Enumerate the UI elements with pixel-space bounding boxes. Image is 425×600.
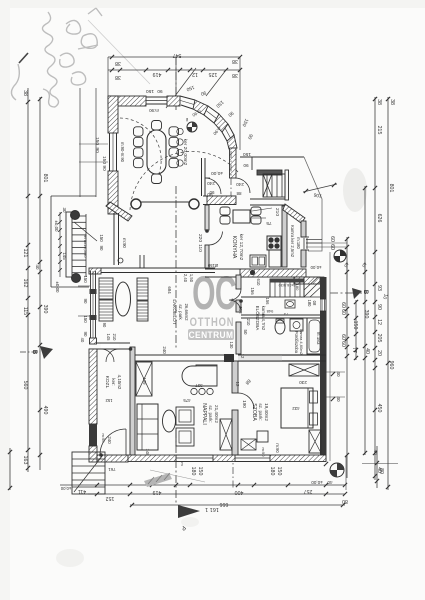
svg-text:38: 38 bbox=[115, 74, 121, 80]
stair hall eaves line bbox=[240, 156, 304, 158]
svg-text:38: 38 bbox=[115, 60, 121, 66]
svg-text:88: 88 bbox=[236, 191, 241, 196]
svg-text:ker 12,70m2: ker 12,70m2 bbox=[238, 234, 244, 261]
svg-text:60: 60 bbox=[340, 309, 346, 315]
svg-text:180: 180 bbox=[295, 284, 300, 291]
svg-text:180: 180 bbox=[190, 467, 196, 476]
svg-text:115: 115 bbox=[22, 307, 28, 315]
left dim ticks small bbox=[58, 212, 62, 216]
pantry chamfer wall bbox=[283, 204, 305, 223]
left inner dimension line bbox=[39, 97, 41, 470]
section line horizontal right bbox=[330, 292, 362, 294]
svg-text:08: 08 bbox=[312, 301, 317, 306]
bedroom bottom window bbox=[235, 454, 270, 456]
svg-text:±0,00: ±0,00 bbox=[310, 265, 322, 270]
right dim 215/626/205/450 line bbox=[374, 97, 376, 480]
svg-text:684: 684 bbox=[167, 286, 172, 294]
lakoelot chair striped 1 bbox=[137, 278, 148, 300]
svg-text:26,66m2: 26,66m2 bbox=[184, 303, 189, 321]
svg-text:180: 180 bbox=[269, 467, 275, 476]
svg-text:156: 156 bbox=[265, 298, 270, 306]
svg-text:801: 801 bbox=[388, 184, 394, 193]
benchmark circle bottom-right bbox=[330, 463, 344, 477]
leader diagonal to arc windows bbox=[166, 68, 196, 108]
svg-text:75: 75 bbox=[266, 220, 272, 226]
pantry sill lines bbox=[306, 239, 322, 241]
bottom wall left piece bbox=[97, 455, 128, 462]
svg-text:150: 150 bbox=[197, 467, 203, 476]
corridor door arcs bbox=[230, 289, 241, 300]
living left wall bottom junction bbox=[90, 338, 97, 344]
svg-text:sz. park: sz. park bbox=[178, 304, 183, 320]
dining stadium table bbox=[147, 130, 166, 174]
svg-text:38: 38 bbox=[232, 58, 238, 64]
svg-text:90: 90 bbox=[102, 323, 107, 328]
svg-text:163: 163 bbox=[22, 456, 28, 465]
stove bbox=[267, 236, 281, 250]
svg-text:90: 90 bbox=[157, 88, 163, 94]
counter bar bbox=[182, 365, 217, 386]
svg-text:475: 475 bbox=[183, 398, 191, 403]
living bottom pier2 bbox=[213, 455, 235, 462]
kitchen left wall upper bbox=[205, 205, 209, 230]
bathtub bbox=[307, 318, 322, 354]
svg-text:948: 948 bbox=[266, 309, 273, 314]
kitchen door arc bbox=[209, 232, 223, 246]
svg-text:Fürdőszoba: Fürdőszoba bbox=[294, 331, 299, 354]
svg-text:230: 230 bbox=[299, 380, 307, 385]
svg-text:40: 40 bbox=[373, 449, 378, 455]
ticks 40 near benchmark bbox=[345, 270, 349, 274]
svg-text:960: 960 bbox=[388, 361, 394, 370]
svg-text:CENTRUM: CENTRUM bbox=[189, 330, 234, 341]
svg-text:40: 40 bbox=[364, 348, 370, 354]
svg-text:m:180: m:180 bbox=[296, 237, 301, 249]
sofa 3-seat bbox=[137, 404, 158, 450]
door pivot dots bbox=[205, 229, 209, 233]
svg-text:110: 110 bbox=[197, 244, 203, 252]
svg-text:337: 337 bbox=[195, 383, 203, 388]
kozl wardrobe bbox=[136, 362, 152, 396]
svg-text:125: 125 bbox=[209, 71, 218, 77]
svg-text:240: 240 bbox=[236, 182, 244, 187]
svg-text:666: 666 bbox=[220, 501, 229, 507]
svg-text:±0,00: ±0,00 bbox=[311, 480, 323, 485]
dining wall pier bbox=[167, 96, 180, 106]
svg-text:30: 30 bbox=[62, 208, 67, 213]
svg-text:ELŐSZOBA: ELŐSZOBA bbox=[255, 306, 261, 332]
svg-text:257: 257 bbox=[304, 488, 313, 494]
svg-text:19,40m2: 19,40m2 bbox=[264, 403, 269, 421]
svg-text:240: 240 bbox=[162, 346, 167, 354]
svg-text:419: 419 bbox=[153, 71, 162, 77]
bottom dim line 3 bbox=[130, 504, 345, 506]
svg-text:156: 156 bbox=[250, 287, 255, 295]
lakoelot sofa striped 2 bbox=[99, 300, 113, 321]
living left window 1 bbox=[90, 271, 92, 289]
pantry right wall bbox=[301, 221, 306, 237]
left bottom short dim line bbox=[9, 448, 11, 490]
svg-text:60: 60 bbox=[340, 341, 346, 347]
dining top window 150 bbox=[146, 96, 167, 98]
svg-text:210: 210 bbox=[274, 208, 280, 216]
watermark OTTHON bbox=[190, 316, 235, 329]
svg-text:80: 80 bbox=[342, 498, 348, 504]
terrace wedge bottom bbox=[144, 473, 172, 487]
svg-text:12: 12 bbox=[240, 354, 245, 359]
crease line bbox=[88, 20, 150, 84]
svg-text:150: 150 bbox=[99, 234, 104, 242]
svg-text:400: 400 bbox=[235, 489, 244, 495]
nappali door arc bbox=[238, 393, 254, 409]
section line bbox=[175, 57, 177, 112]
svg-text:4,10m2: 4,10m2 bbox=[117, 375, 122, 390]
winder steps bbox=[304, 277, 324, 297]
wc room walls bbox=[241, 296, 270, 298]
second section dash line bbox=[230, 151, 232, 196]
nappali divider wall bbox=[232, 361, 238, 393]
svg-text:150: 150 bbox=[243, 151, 251, 157]
svg-text:38: 38 bbox=[376, 99, 382, 105]
living left window 3 bbox=[90, 320, 92, 338]
living bottom wall pier1 bbox=[128, 455, 176, 462]
bottom dim line 1 bbox=[60, 484, 345, 486]
benchmark circle dining bbox=[187, 122, 197, 132]
bedroom bottom pier3 bbox=[270, 455, 326, 462]
right dim line 60s inner bbox=[346, 237, 348, 478]
hall vertical wall bbox=[201, 158, 203, 196]
svg-text:50: 50 bbox=[243, 330, 248, 335]
right dim 150/77 bbox=[355, 300, 357, 360]
right bottom small dims bbox=[376, 446, 378, 488]
stair diagonal bbox=[74, 222, 97, 241]
svg-text:012: 012 bbox=[238, 306, 243, 314]
svg-text:Kamra ker 2,5m2: Kamra ker 2,5m2 bbox=[290, 225, 295, 258]
svg-text:sz. park:: sz. park: bbox=[258, 403, 263, 420]
hall door arc 2 bbox=[235, 178, 250, 193]
svg-text:90: 90 bbox=[94, 147, 100, 153]
kitchen left wall lower bbox=[205, 245, 209, 268]
bar stools bbox=[191, 388, 197, 394]
svg-text:±0,00: ±0,00 bbox=[55, 282, 60, 294]
svg-text:12: 12 bbox=[376, 319, 382, 325]
section arrow bottom bbox=[178, 505, 200, 518]
kozl entry door arc bbox=[100, 429, 126, 455]
hall door arc 1 bbox=[205, 178, 221, 194]
svg-text:12: 12 bbox=[235, 382, 240, 387]
svg-text:610: 610 bbox=[256, 279, 261, 287]
svg-text:761: 761 bbox=[108, 467, 116, 472]
svg-text:150: 150 bbox=[352, 321, 358, 330]
svg-text:215: 215 bbox=[376, 126, 382, 135]
svg-text:240: 240 bbox=[107, 436, 112, 444]
bedroom wardrobe top bbox=[289, 364, 319, 376]
svg-text:38: 38 bbox=[389, 99, 395, 105]
top dimension line 419/12/125 bbox=[108, 69, 240, 71]
svg-text:77: 77 bbox=[351, 347, 357, 353]
svg-text:60: 60 bbox=[329, 236, 335, 242]
svg-text:432: 432 bbox=[292, 406, 300, 411]
kitchen counter right bbox=[269, 250, 281, 267]
living left pier 1 bbox=[90, 289, 97, 294]
kitchen chairs bbox=[220, 207, 230, 215]
svg-text:60: 60 bbox=[340, 334, 346, 340]
svg-text:150: 150 bbox=[276, 467, 282, 476]
nightstand bbox=[257, 431, 268, 442]
svg-text:560: 560 bbox=[22, 381, 28, 390]
svg-text:m:90: m:90 bbox=[149, 108, 159, 113]
pantry divider wall bbox=[282, 206, 287, 267]
svg-text:90: 90 bbox=[83, 332, 88, 337]
living left window 2 bbox=[90, 294, 92, 315]
upper stair flight bbox=[270, 279, 304, 297]
exterior stairs treads bbox=[72, 215, 86, 217]
washing machine bbox=[290, 319, 303, 331]
svg-text:m:90: m:90 bbox=[261, 448, 266, 458]
terrace railing m90 bbox=[113, 213, 115, 265]
svg-text:fel 8x16,5/30: fel 8x16,5/30 bbox=[83, 235, 88, 259]
svg-text:180: 180 bbox=[307, 300, 312, 308]
dining chairs right column bbox=[169, 127, 179, 136]
svg-text:139: 139 bbox=[142, 378, 147, 386]
window cabinet under bedroom window bbox=[241, 439, 256, 450]
stair right wall bbox=[285, 170, 289, 200]
dining top wall hatched bbox=[108, 96, 146, 106]
staircase upper bbox=[263, 174, 285, 197]
bedroom wardrobe bottom bbox=[309, 430, 321, 453]
coffee table oval bbox=[163, 410, 176, 432]
scan streaks bbox=[0, 0, 425, 8]
curtain dashed arcs bbox=[120, 118, 161, 176]
svg-text:KOZL: KOZL bbox=[104, 376, 110, 389]
bath block top wall right part bbox=[294, 277, 320, 284]
right eaves line lower bbox=[329, 252, 331, 461]
svg-text:90: 90 bbox=[207, 191, 213, 197]
porch column left bbox=[131, 199, 141, 209]
svg-text:sz. park:: sz. park: bbox=[208, 405, 213, 422]
extension lines top bbox=[107, 57, 109, 96]
lakoelot oval table bbox=[116, 282, 131, 316]
svg-text:ker:: ker: bbox=[111, 378, 116, 385]
svg-text:490: 490 bbox=[42, 406, 48, 415]
svg-text:90: 90 bbox=[376, 304, 382, 310]
svg-text:150: 150 bbox=[146, 88, 154, 94]
svg-text:B: B bbox=[362, 290, 368, 295]
svg-text:40: 40 bbox=[80, 338, 85, 343]
living bottom window bbox=[176, 454, 213, 456]
bedroom 40 ticks bbox=[331, 372, 335, 376]
bottom dim line 2 bbox=[88, 493, 345, 495]
svg-text:162: 162 bbox=[22, 279, 28, 288]
section marker B left bbox=[40, 346, 53, 359]
right outer dim 801/960 bbox=[387, 97, 389, 490]
svg-text:801: 801 bbox=[42, 174, 48, 183]
entrance steps bottom-left bbox=[72, 452, 105, 494]
kozl left wall low bbox=[89, 446, 97, 462]
terrace boundary bbox=[51, 195, 96, 197]
lakoelot sofa striped 1 bbox=[99, 278, 113, 299]
top dimension line 547 bbox=[108, 56, 240, 58]
svg-text:m:90-m:90: m:90-m:90 bbox=[120, 142, 125, 163]
svg-text:40: 40 bbox=[35, 265, 40, 270]
svg-text:38: 38 bbox=[232, 72, 238, 78]
svg-text:130: 130 bbox=[229, 342, 234, 350]
bedroom top wall bbox=[238, 354, 326, 356]
svg-text:93: 93 bbox=[376, 285, 382, 291]
living left pier 2 bbox=[90, 315, 97, 320]
kitchen bottom wall bbox=[205, 268, 306, 270]
porch column right bbox=[189, 199, 199, 209]
dining chamfer wall bottom-left bbox=[106, 202, 132, 221]
section marker right bbox=[352, 288, 362, 299]
svg-text:40: 40 bbox=[327, 480, 333, 485]
svg-text:145: 145 bbox=[106, 334, 111, 342]
kozl divider wall bbox=[130, 347, 135, 455]
tv bench bbox=[220, 419, 232, 450]
wall below arc end bbox=[230, 148, 237, 178]
building right wall bbox=[320, 277, 327, 462]
svg-text:220: 220 bbox=[197, 234, 203, 242]
dining left wall hatched upper bbox=[108, 96, 118, 133]
toilet bbox=[275, 320, 285, 334]
right dim 390/40 bbox=[364, 186, 366, 455]
svg-text:38: 38 bbox=[22, 90, 28, 96]
svg-text:m:90: m:90 bbox=[101, 434, 106, 444]
svg-text:150: 150 bbox=[101, 156, 107, 164]
svg-text:80: 80 bbox=[378, 468, 384, 474]
svg-text:90: 90 bbox=[83, 299, 88, 304]
lakoelot chair striped 2 bbox=[137, 301, 148, 321]
svg-text:20: 20 bbox=[376, 350, 382, 356]
living top wall bbox=[97, 267, 215, 269]
left outer dimension line bbox=[27, 88, 29, 472]
svg-text:390: 390 bbox=[42, 305, 48, 314]
dining chair top bbox=[152, 121, 162, 131]
svg-text:90: 90 bbox=[99, 246, 104, 251]
svg-text:150: 150 bbox=[83, 315, 88, 323]
svg-text:205: 205 bbox=[376, 334, 382, 343]
watermark CENTRUM box bbox=[188, 329, 234, 340]
svg-text:m:: m: bbox=[185, 118, 190, 122]
svg-text:6x16,5/30: 6x16,5/30 bbox=[279, 283, 296, 287]
svg-text:152: 152 bbox=[106, 495, 115, 501]
svg-text:±0,00: ±0,00 bbox=[60, 486, 71, 491]
svg-text:450: 450 bbox=[376, 404, 382, 413]
svg-text:419: 419 bbox=[153, 489, 162, 495]
benchmark circle right of pantry bbox=[334, 250, 346, 262]
svg-text:190: 190 bbox=[242, 400, 247, 408]
svg-text:Ø150: Ø150 bbox=[207, 263, 218, 268]
watermark OC logo bbox=[192, 267, 236, 319]
exterior stairs stringer bbox=[66, 212, 72, 277]
svg-text:75: 75 bbox=[283, 312, 288, 317]
svg-text:240: 240 bbox=[207, 181, 215, 186]
svg-text:411: 411 bbox=[78, 488, 86, 494]
svg-text:kamra 4,60m2: kamra 4,60m2 bbox=[299, 329, 304, 355]
svg-text:NAPPALI: NAPPALI bbox=[201, 403, 207, 425]
bed bbox=[281, 388, 313, 428]
svg-text:145: 145 bbox=[62, 252, 67, 260]
svg-text:121: 121 bbox=[22, 249, 28, 258]
armchair 2 bbox=[176, 428, 194, 446]
porch edge line bbox=[141, 201, 189, 203]
pencil scribble notes bbox=[11, 8, 102, 107]
svg-text:21,40m2: 21,40m2 bbox=[214, 405, 219, 423]
wall under stairs bbox=[250, 198, 285, 200]
kitchen sink bbox=[250, 255, 266, 267]
svg-text:90: 90 bbox=[243, 163, 249, 168]
svg-text:±0,00: ±0,00 bbox=[54, 221, 59, 233]
svg-text:m:90: m:90 bbox=[122, 238, 127, 248]
svg-text:OC: OC bbox=[192, 267, 236, 319]
staircase landing bar bbox=[257, 170, 282, 175]
svg-text:161 1: 161 1 bbox=[205, 506, 219, 512]
svg-text:1,50: 1,50 bbox=[189, 274, 194, 283]
svg-text:150: 150 bbox=[83, 275, 88, 283]
dining left wall hatched lower bbox=[108, 171, 118, 214]
svg-text:m:90: m:90 bbox=[275, 443, 280, 453]
svg-text:60: 60 bbox=[340, 302, 346, 308]
terrace glazing stub bbox=[139, 255, 141, 268]
pantry window m180 bbox=[301, 236, 309, 238]
svg-text:OTTHON: OTTHON bbox=[190, 316, 235, 329]
dining left wall window bbox=[109, 133, 111, 171]
dining chairs left column bbox=[134, 127, 144, 136]
svg-text:210: 210 bbox=[112, 334, 117, 342]
svg-text:148: 148 bbox=[145, 449, 150, 457]
svg-text:LAKÓELŐT: LAKÓELŐT bbox=[171, 299, 178, 324]
kozl left wall dark pier bbox=[89, 424, 97, 446]
hall wall A hatched bbox=[203, 195, 236, 197]
svg-text:152: 152 bbox=[105, 398, 113, 403]
nappali top wall bbox=[134, 354, 232, 356]
svg-text:±0,00: ±0,00 bbox=[211, 170, 223, 176]
wc sink bbox=[285, 300, 295, 308]
svg-text:kamra 4,7m2: kamra 4,7m2 bbox=[261, 306, 266, 331]
dim 106 chamfer bbox=[303, 184, 337, 192]
curved glazed wall segments bbox=[180, 96, 195, 100]
eaves outline right bbox=[304, 157, 322, 251]
right wall window gap wc bbox=[321, 299, 326, 311]
kozl top wall + door bbox=[89, 342, 130, 344]
bath block left wall bbox=[236, 275, 241, 289]
kozl left wall hatched bbox=[89, 349, 97, 424]
pantry right wall lower bbox=[301, 250, 306, 267]
dining chair bottom bbox=[152, 174, 162, 184]
svg-text:KONYHA: KONYHA bbox=[231, 236, 237, 259]
svg-text:390: 390 bbox=[363, 310, 369, 319]
dark slash mark bbox=[19, 53, 28, 63]
svg-text:90: 90 bbox=[101, 165, 107, 171]
svg-text:547: 547 bbox=[173, 52, 182, 58]
stair posts bbox=[71, 211, 80, 220]
svg-text:2,40: 2,40 bbox=[183, 274, 188, 283]
kitchen table bbox=[233, 210, 250, 223]
armchair 1 bbox=[176, 407, 194, 425]
divider dark pier bbox=[224, 354, 234, 362]
svg-text:210: 210 bbox=[246, 319, 251, 327]
svg-text:626: 626 bbox=[376, 214, 382, 223]
